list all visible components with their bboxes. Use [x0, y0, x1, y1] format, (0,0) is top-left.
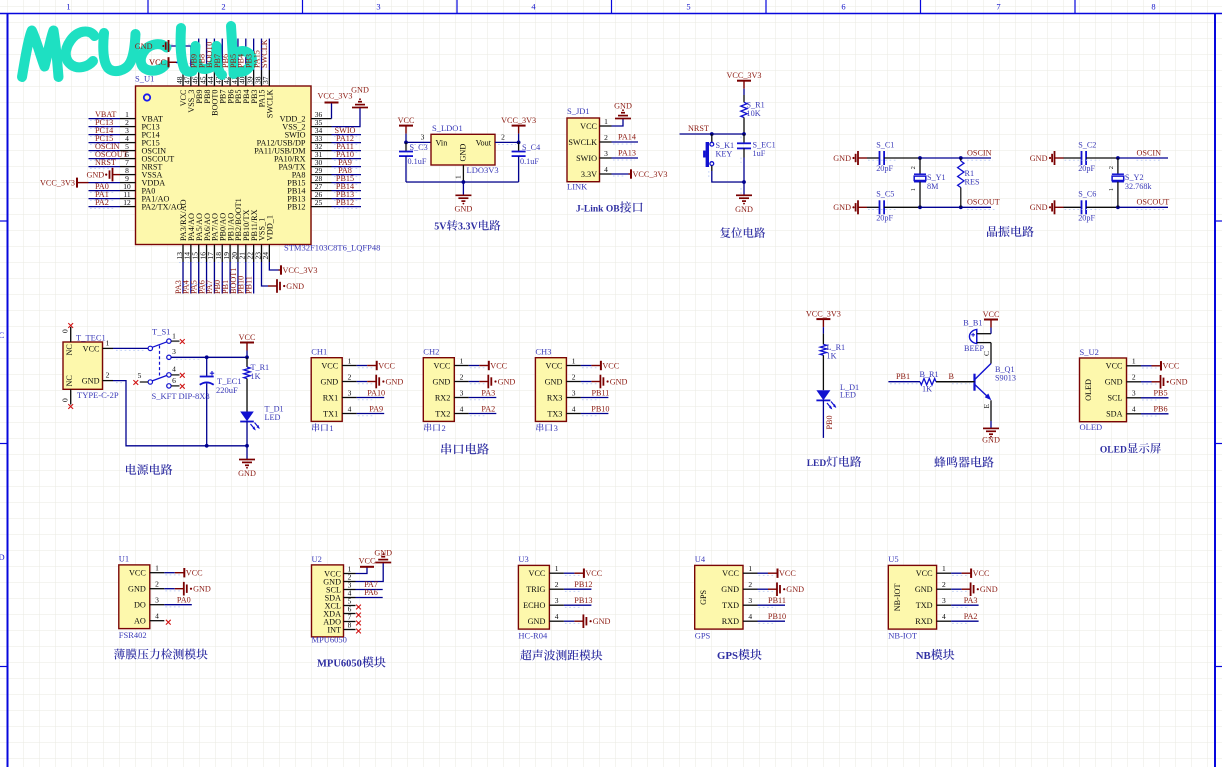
- svg-text:1: 1: [1132, 357, 1136, 366]
- svg-text:LINK: LINK: [567, 182, 588, 192]
- title reset circuit: [720, 227, 730, 238]
- svg-text:GND: GND: [82, 377, 100, 386]
- svg-text:S_C6: S_C6: [1078, 190, 1096, 199]
- svg-text:20pF: 20pF: [876, 214, 893, 223]
- svg-text:7: 7: [996, 2, 1000, 12]
- svg-text:SWIO: SWIO: [576, 154, 597, 163]
- crystal S_Y2 32.768k: [1117, 158, 1119, 174]
- svg-text:1: 1: [348, 356, 352, 365]
- svg-text:SDA: SDA: [1106, 410, 1122, 419]
- svg-text:12: 12: [123, 198, 131, 207]
- power VCC at U2: [360, 566, 374, 568]
- svg-text:NB: NB: [916, 650, 931, 662]
- svg-text:TXD: TXD: [722, 601, 739, 610]
- svg-text:TYPE-C-2P: TYPE-C-2P: [77, 390, 119, 400]
- connector U2 MPU6050 body: [312, 565, 344, 637]
- ground at buzzer emitter: [983, 427, 999, 429]
- svg-text:HC-R04: HC-R04: [518, 630, 548, 640]
- svg-text:3: 3: [155, 596, 159, 605]
- switch pin 3 output: [167, 355, 171, 359]
- svg-text:GND: GND: [786, 585, 804, 594]
- svg-text:1K: 1K: [827, 351, 837, 360]
- svg-text:2: 2: [555, 580, 559, 589]
- crystal S_Y1 8M: [919, 158, 921, 174]
- ground symbol below LDO: [462, 182, 464, 195]
- junction EC1 bottom: [205, 444, 209, 448]
- junction EC1 top: [205, 355, 209, 359]
- svg-text:U1: U1: [119, 554, 129, 564]
- svg-text:4: 4: [172, 365, 176, 374]
- svg-text:VCC: VCC: [1106, 362, 1123, 371]
- svg-text:VCC_3V3: VCC_3V3: [633, 170, 668, 179]
- power VCC at LDO input: [399, 125, 413, 127]
- svg-text:RX1: RX1: [323, 393, 338, 402]
- LED L_D1: [816, 390, 830, 400]
- svg-text:PB6: PB6: [1153, 405, 1167, 414]
- svg-text:10K: 10K: [747, 109, 761, 118]
- CH2 sub label: [424, 423, 431, 431]
- svg-text:NB-IOT: NB-IOT: [893, 584, 902, 612]
- svg-text:Vout: Vout: [476, 139, 492, 148]
- svg-text:GND: GND: [915, 585, 933, 594]
- svg-text:8M: 8M: [927, 182, 939, 191]
- svg-text:PA9: PA9: [369, 404, 383, 413]
- svg-text:2: 2: [221, 2, 225, 12]
- svg-text:OSCOUT: OSCOUT: [1137, 198, 1170, 207]
- svg-text:GND: GND: [528, 617, 546, 626]
- wire TEC1 pin1 to switch: [113, 347, 148, 349]
- CH1 sub label: [312, 423, 319, 431]
- wire buzzer bottom to collector: [977, 342, 991, 344]
- svg-text:0: 0: [61, 398, 70, 402]
- wire S_C2 to OSCIN: [1086, 157, 1118, 159]
- svg-text:8: 8: [1151, 2, 1155, 12]
- svg-text:3: 3: [554, 423, 558, 433]
- LDO GND pin 1: [462, 165, 464, 182]
- switch gang dashed link: [159, 346, 161, 379]
- svg-text:MPU6050: MPU6050: [317, 659, 362, 670]
- svg-text:3: 3: [555, 596, 559, 605]
- svg-text:DO: DO: [134, 601, 146, 610]
- resistor R1 RES: [959, 156, 963, 160]
- connector CH3 body: [535, 358, 566, 422]
- svg-text:GND: GND: [1105, 378, 1123, 387]
- svg-text:INT: INT: [327, 625, 341, 634]
- U2 pin 6 no-connect: [356, 613, 361, 618]
- svg-text:VCC: VCC: [983, 310, 1000, 319]
- svg-text:PB12: PB12: [574, 580, 592, 589]
- svg-text:C: C: [0, 330, 5, 340]
- svg-text:PB11: PB11: [591, 388, 609, 397]
- capacitor S_C5 20pF: [867, 206, 880, 208]
- svg-text:S_U2: S_U2: [1080, 347, 1099, 357]
- connector S_U2 body: [1080, 358, 1127, 422]
- svg-text:3: 3: [460, 388, 464, 397]
- svg-text:U5: U5: [888, 554, 898, 564]
- svg-text:GND: GND: [351, 86, 369, 95]
- switch pin 6 no-connect: [167, 384, 171, 388]
- svg-text:SCL: SCL: [1107, 394, 1122, 403]
- compile marks top: [171, 43, 196, 45]
- svg-text:PB12: PB12: [336, 198, 354, 207]
- svg-text:VCC: VCC: [585, 569, 602, 578]
- junction at LDO ground rail: [462, 180, 466, 184]
- svg-text:NC: NC: [65, 344, 74, 356]
- svg-text:1: 1: [1108, 188, 1115, 191]
- svg-text:2: 2: [1108, 166, 1115, 169]
- svg-text:GND: GND: [610, 377, 628, 386]
- svg-text:GND: GND: [721, 585, 739, 594]
- svg-text:1K: 1K: [922, 385, 932, 394]
- wire VCC to LDO Vin: [406, 141, 431, 143]
- emitter wire to ground: [990, 400, 992, 421]
- svg-text:VCC: VCC: [433, 361, 450, 370]
- TEC1 pin 1 VCC: [103, 347, 114, 349]
- svg-text:20pF: 20pF: [876, 164, 893, 173]
- svg-text:GND: GND: [614, 102, 632, 111]
- svg-text:2: 2: [1132, 373, 1136, 382]
- power VCC_3V3 at JD1 pin4: [612, 173, 629, 175]
- svg-text:GND: GND: [386, 377, 404, 386]
- svg-text:1K: 1K: [251, 372, 261, 381]
- svg-text:CH1: CH1: [311, 347, 327, 357]
- svg-text:E: E: [982, 404, 991, 409]
- title film pressure module: [114, 649, 125, 660]
- svg-text:RX3: RX3: [547, 393, 562, 402]
- svg-text:2: 2: [748, 580, 752, 589]
- wire LDO ground rail: [406, 181, 519, 183]
- svg-text:GPS: GPS: [695, 630, 711, 640]
- svg-text:VCC_3V3: VCC_3V3: [501, 116, 536, 125]
- svg-text:VCC: VCC: [529, 569, 546, 578]
- svg-text:2: 2: [604, 133, 608, 142]
- capacitor S_C6 20pF: [1064, 206, 1082, 208]
- svg-text:0.1uF: 0.1uF: [408, 157, 427, 166]
- svg-text:J-Link OB: J-Link OB: [576, 205, 620, 215]
- svg-text:VCC_3V3: VCC_3V3: [726, 71, 761, 80]
- power VCC_3V3 at U1 pin 36 VDD_2: [331, 103, 333, 119]
- junction NRST-key: [710, 132, 714, 136]
- svg-text:2: 2: [942, 580, 946, 589]
- svg-text:5: 5: [138, 371, 142, 380]
- svg-text:VCC: VCC: [359, 557, 376, 566]
- svg-text:1: 1: [453, 175, 462, 179]
- svg-text:RES: RES: [965, 177, 980, 186]
- svg-text:VDD_1: VDD_1: [266, 215, 275, 241]
- svg-text:GPS: GPS: [717, 650, 738, 662]
- ground at U2: [375, 562, 391, 564]
- svg-text:GND: GND: [135, 42, 153, 51]
- svg-text:4: 4: [155, 612, 159, 621]
- svg-text:Vin: Vin: [436, 139, 448, 148]
- svg-text:GND: GND: [982, 436, 1000, 445]
- svg-text:VCC: VCC: [129, 569, 146, 578]
- svg-text:S_C4: S_C4: [522, 143, 540, 152]
- svg-text:6: 6: [841, 2, 845, 12]
- U1 bottom pins 13-24: [182, 245, 184, 263]
- wire U2 pin4 PA6: [356, 597, 383, 599]
- svg-text:VCC: VCC: [973, 569, 990, 578]
- svg-text:GND: GND: [735, 205, 753, 214]
- connector CH2 body: [423, 358, 454, 422]
- svg-text:5: 5: [686, 2, 690, 12]
- svg-text:CH2: CH2: [423, 347, 439, 357]
- transistor B_Q1 S9013: [973, 374, 975, 391]
- svg-text:8: 8: [348, 621, 352, 630]
- connector S_JD1 body: [567, 118, 600, 182]
- svg-text:SWCLK: SWCLK: [568, 138, 597, 147]
- wire key to ground rail: [711, 166, 713, 172]
- U1 left pins 1-12: [120, 118, 136, 120]
- svg-text:6: 6: [172, 376, 176, 385]
- svg-text:4: 4: [348, 404, 352, 413]
- junction at C4 top: [517, 141, 521, 145]
- svg-text:GND: GND: [1170, 378, 1188, 387]
- svg-text:20pF: 20pF: [1078, 214, 1095, 223]
- svg-text:PA10: PA10: [367, 388, 385, 397]
- U2 pin 5 no-connect: [356, 605, 361, 610]
- wire JD1 pin3 PA13: [612, 157, 639, 159]
- wire S_C6 to OSCOUT: [1086, 206, 1118, 208]
- svg-text:B: B: [949, 372, 955, 381]
- svg-text:PB10: PB10: [591, 404, 609, 413]
- connector CH1 body: [311, 358, 342, 422]
- junction at C3 top: [404, 141, 408, 145]
- svg-text:PB11: PB11: [768, 596, 786, 605]
- junction at reset ground: [742, 180, 746, 184]
- capacitor T_EC1 220uF electrolytic: [206, 357, 208, 376]
- svg-text:3: 3: [572, 388, 576, 397]
- switch pin 4 no-connect: [167, 373, 171, 377]
- svg-text:VCC: VCC: [83, 344, 100, 353]
- svg-text:S_C2: S_C2: [1078, 141, 1096, 150]
- svg-text:GND: GND: [286, 282, 304, 291]
- U1 right net labels and wires: [332, 134, 362, 136]
- wire LED to ground rail: [246, 422, 248, 446]
- svg-text:FSR402: FSR402: [119, 630, 147, 640]
- TEC1 bottom pin 0 no-connect: [70, 389, 72, 404]
- svg-text:VCC: VCC: [490, 361, 507, 370]
- svg-text:GND: GND: [593, 617, 611, 626]
- svg-text:GND: GND: [238, 469, 256, 478]
- svg-text:MPU6050: MPU6050: [312, 635, 347, 645]
- power VCC_3V3 at U1 pin 24 VDD_1: [269, 262, 278, 270]
- U1 top net wires pins 46-37: [198, 39, 200, 71]
- svg-text:5V: 5V: [434, 222, 447, 233]
- MCU U1 wires: left side nets: [89, 118, 121, 120]
- svg-text:RX2: RX2: [435, 393, 450, 402]
- title buzzer circuit: [934, 456, 945, 467]
- svg-text:GND: GND: [1030, 154, 1048, 163]
- svg-text:AO: AO: [134, 617, 146, 626]
- svg-text:VCC: VCC: [321, 361, 338, 370]
- svg-text:2: 2: [910, 166, 917, 169]
- svg-text:VCC: VCC: [546, 361, 563, 370]
- svg-text:37: 37: [261, 76, 270, 84]
- svg-text:1: 1: [572, 356, 576, 365]
- svg-text:3: 3: [376, 2, 380, 12]
- resistor B_R1 1K: [920, 379, 936, 385]
- svg-text:4: 4: [572, 404, 576, 413]
- svg-text:3.3V: 3.3V: [581, 170, 597, 179]
- svg-text:GND: GND: [193, 585, 211, 594]
- ground at JD1 pin 1: [615, 118, 631, 120]
- svg-text:VCC: VCC: [149, 58, 166, 67]
- svg-text:GND: GND: [833, 203, 851, 212]
- svg-text:NC: NC: [65, 375, 74, 387]
- svg-text:3: 3: [942, 596, 946, 605]
- svg-text:ECHO: ECHO: [523, 601, 545, 610]
- svg-text:1: 1: [172, 331, 176, 340]
- title power circuit: [126, 464, 136, 475]
- connector U5 body: [888, 565, 936, 629]
- svg-text:S_C1: S_C1: [876, 141, 894, 150]
- title crystal circuit: [987, 226, 997, 237]
- svg-text:PB13: PB13: [574, 596, 592, 605]
- svg-text:VCC: VCC: [722, 569, 739, 578]
- capacitor S_C3 0.1uF: [405, 142, 407, 151]
- wire U2 pin2 to GND: [356, 563, 384, 582]
- ground at U1 pin 23 VSS_1: [262, 262, 269, 286]
- svg-text:20pF: 20pF: [1078, 164, 1095, 173]
- svg-text:GND: GND: [1030, 203, 1048, 212]
- svg-text:GND: GND: [86, 171, 104, 180]
- svg-text:2: 2: [460, 372, 464, 381]
- svg-text:VCC: VCC: [1163, 362, 1180, 371]
- wire U2 pin1 to VCC: [356, 567, 368, 574]
- svg-text:PB12: PB12: [287, 203, 305, 212]
- svg-text:3: 3: [421, 132, 425, 141]
- LED T_D1: [240, 412, 254, 422]
- TEC1 top pin 0 no-connect: [70, 327, 72, 342]
- key S_K1 KEY pushbutton: [711, 134, 713, 142]
- wire buzzer top to VCC: [977, 333, 991, 335]
- svg-text:GND: GND: [833, 154, 851, 163]
- svg-text:TRIG: TRIG: [526, 585, 545, 594]
- svg-text:S_EC1: S_EC1: [753, 140, 776, 149]
- svg-text:PA2: PA2: [95, 198, 109, 207]
- ground at U1 pin 8 VSSA: [113, 174, 121, 176]
- svg-text:3: 3: [1132, 389, 1136, 398]
- svg-text:KEY: KEY: [716, 150, 733, 159]
- svg-text:3: 3: [348, 388, 352, 397]
- svg-text:OSCIN: OSCIN: [967, 148, 992, 157]
- capacitor S_C4 0.1uF: [518, 142, 520, 151]
- svg-text:VCC_3V3: VCC_3V3: [40, 179, 75, 188]
- title serial circuit: [441, 443, 451, 454]
- svg-text:S_C5: S_C5: [876, 190, 894, 199]
- svg-text:2: 2: [106, 371, 110, 380]
- TEC1 pin 2 GND: [103, 380, 114, 382]
- wire PB1 to B_R1: [888, 381, 920, 383]
- svg-text:T_R1: T_R1: [251, 363, 270, 372]
- connector U4 body: [695, 565, 743, 629]
- svg-text:PA0: PA0: [177, 596, 191, 605]
- svg-text:U2: U2: [312, 554, 322, 564]
- svg-text:4: 4: [555, 612, 559, 621]
- svg-text:PB10: PB10: [768, 612, 786, 621]
- U2 pin 8 no-connect: [356, 629, 361, 634]
- svg-text:VCC: VCC: [378, 361, 395, 370]
- svg-text:3: 3: [172, 347, 176, 356]
- CH3 sub label: [536, 423, 543, 431]
- svg-text:NRST: NRST: [95, 158, 116, 167]
- power VCC_3V3 at LDO output: [512, 125, 526, 127]
- svg-text:GND: GND: [128, 585, 146, 594]
- collector wire: [990, 343, 992, 364]
- connector U3 body: [518, 565, 549, 629]
- svg-text:PA2: PA2: [481, 404, 495, 413]
- svg-text:PA2/TX/AO: PA2/TX/AO: [142, 203, 183, 212]
- svg-text:25: 25: [315, 198, 323, 207]
- svg-text:PB1: PB1: [896, 372, 910, 381]
- MCU U1 body: [136, 86, 312, 245]
- svg-text:S9013: S9013: [995, 373, 1016, 382]
- svg-text:PB5: PB5: [1153, 389, 1167, 398]
- svg-text:S_JD1: S_JD1: [567, 106, 590, 116]
- power VCC_3V3 LED circuit: [816, 318, 830, 320]
- svg-text:24: 24: [261, 252, 270, 260]
- switch lever 2-1: [152, 342, 167, 348]
- svg-text:BEEP: BEEP: [964, 344, 984, 353]
- svg-text:OLED: OLED: [1084, 379, 1093, 401]
- svg-text:GND: GND: [459, 144, 468, 162]
- svg-text:1: 1: [555, 564, 559, 573]
- wire LDO Vout to VCC_3V3: [495, 141, 519, 143]
- wire LED to PB0: [822, 400, 824, 438]
- svg-text:1: 1: [155, 564, 159, 573]
- svg-text:LED: LED: [265, 413, 281, 422]
- svg-text:1uF: 1uF: [753, 149, 766, 158]
- svg-text:VCC_3V3: VCC_3V3: [283, 266, 318, 275]
- svg-text:VCC: VCC: [916, 569, 933, 578]
- svg-text:3.3V: 3.3V: [458, 222, 479, 233]
- svg-text:PA13: PA13: [618, 148, 636, 157]
- svg-text:D: D: [0, 552, 5, 562]
- svg-text:3: 3: [604, 149, 608, 158]
- resistor L_R1 1K: [822, 334, 824, 345]
- svg-text:S_K1: S_K1: [716, 141, 735, 150]
- svg-text:1: 1: [748, 564, 752, 573]
- svg-text:RXD: RXD: [722, 617, 739, 626]
- LDO U_LDO1 body: [431, 134, 495, 165]
- capacitor S_C2 20pF: [1064, 157, 1082, 159]
- U2 pin 7 no-connect: [356, 621, 361, 626]
- ground at U1 pin 35 VSS_2: [332, 108, 361, 127]
- capacitor S_C1 20pF: [867, 157, 880, 159]
- wire NRST: [680, 133, 745, 135]
- svg-text:U3: U3: [518, 554, 528, 564]
- resistor S_R1 10K: [743, 95, 745, 102]
- svg-text:B_B1: B_B1: [963, 318, 982, 327]
- svg-text:U4: U4: [695, 554, 706, 564]
- ground at U1 pin 47 VSS_3: [169, 46, 191, 70]
- svg-text:2: 2: [348, 372, 352, 381]
- svg-text:GND: GND: [374, 549, 392, 558]
- U1 right pins 36-25: [311, 118, 332, 120]
- svg-text:B_R1: B_R1: [920, 370, 939, 379]
- title ultrasonic module: [520, 650, 531, 661]
- svg-text:PA6: PA6: [364, 588, 378, 597]
- wire switch pin3 to VCC rail: [171, 356, 247, 358]
- svg-text:1: 1: [66, 2, 70, 12]
- svg-text:LED: LED: [807, 459, 827, 469]
- svg-text:1: 1: [106, 338, 110, 347]
- svg-text:PB11: PB11: [244, 276, 253, 294]
- wire B_R1 to base: [936, 381, 975, 383]
- svg-text:1: 1: [460, 356, 464, 365]
- wire S_C1 to OSCIN: [884, 157, 920, 159]
